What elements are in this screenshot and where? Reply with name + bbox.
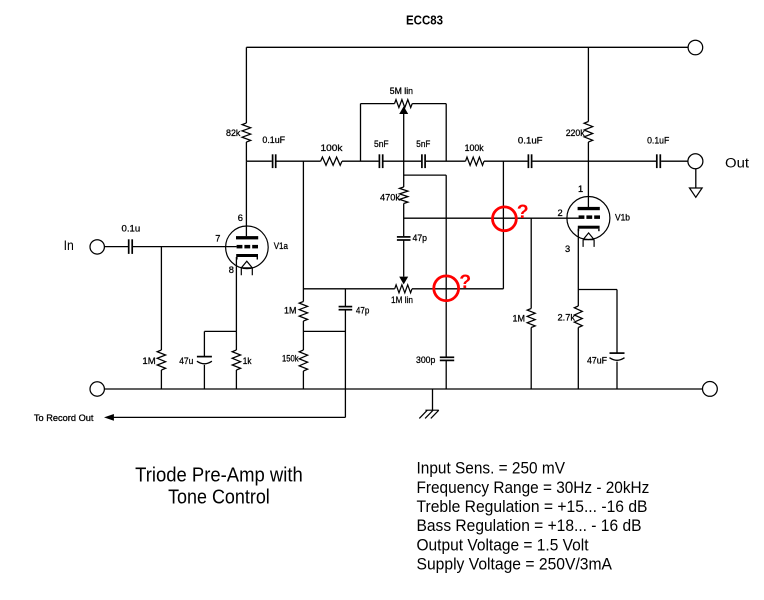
svg-text:Treble Regulation = +15... -16: Treble Regulation = +15... -16 dB [417,498,648,516]
triode V1b envelope [567,197,610,240]
terminal output ground [703,382,718,397]
svg-text:6: 6 [238,213,243,223]
wire V1a cathode lead [235,257,237,331]
wire cathode stub to 47u [204,330,236,332]
V1a anode plate [236,236,258,239]
resistor 100k (tone stack left) [321,157,342,165]
svg-text:300p: 300p [416,355,435,365]
svg-text:Output Voltage = 1.5 Volt: Output Voltage = 1.5 Volt [417,536,589,554]
svg-text:1M lin: 1M lin [391,295,413,305]
query circle junction B (red) [434,276,459,301]
V1b heater [583,233,594,247]
svg-text:150k: 150k [282,354,299,364]
wire 300p to ground rail [445,360,447,389]
wire 150k to rail [302,371,304,389]
svg-text:2: 2 [558,208,563,218]
svg-text:To Record Out: To Record Out [34,413,94,423]
wire corner up to coupling node [502,161,504,289]
wire 100k to C2 [484,160,528,162]
svg-text:100k: 100k [321,143,343,153]
wire treble pot right leg [445,104,447,162]
resistor 2.7k (V1b cathode) [574,306,582,328]
capacitor 0.1uF (output coupling) [656,154,658,168]
wire bass pot right to corner [412,288,503,290]
svg-text:Supply Voltage = 250V/3mA: Supply Voltage = 250V/3mA [417,556,613,574]
resistor 1M (input grid leak) [157,350,165,370]
svg-text:1M: 1M [284,306,296,316]
triode V1a envelope [226,226,269,269]
capacitor 47uF (cathode bypass) [610,352,625,354]
svg-text:5nF: 5nF [374,139,389,149]
svg-text:5nF: 5nF [416,139,430,149]
svg-text:2.7k: 2.7k [558,313,576,323]
svg-text:82k: 82k [226,128,241,138]
svg-text:100k: 100k [465,143,484,153]
resistor 100k (tone stack right) [466,157,485,165]
wire cathode stub to 47uF [578,289,617,291]
wire 1M to node [302,321,304,350]
wire treble pot left leg [360,104,362,162]
resistor 150k (divider lower) [299,350,307,371]
wire 100k to 5nF [342,160,379,162]
wire pot left top [361,103,395,105]
wire 47uF top leg [616,290,618,354]
wire 47uF to rail [616,362,618,389]
potentiometer 5M lin (treble) [395,100,413,108]
svg-text:47p: 47p [413,233,428,243]
query circle junction A (red) [493,207,517,231]
wire B+ top rail [246,46,688,48]
svg-text:V1a: V1a [274,241,289,251]
svg-text:ECC83: ECC83 [406,12,443,27]
svg-text:Out: Out [725,156,749,171]
capacitor 5nF (treble, right) [421,154,423,168]
svg-text:47uF: 47uF [587,356,607,366]
ground symbol [419,410,439,418]
wire 1k to rail [235,370,237,389]
wire V1b anode lead [587,161,589,207]
svg-text:0.1u: 0.1u [122,224,141,234]
resistor 1M (divider upper) [299,302,307,322]
svg-text:1M: 1M [142,356,155,366]
wire cathode to 1k [235,331,237,350]
svg-text:Triode Pre-Amp with: Triode Pre-Amp with [135,464,303,486]
capacitor 0.1uF (to V1b grid node) [527,154,529,168]
svg-text:1M: 1M [513,314,526,324]
terminal input ground [90,382,104,396]
resistor 470k [400,187,408,204]
wire 82k to plate node [245,142,247,161]
wire C3 to Out terminal [661,160,688,162]
wire from top rail down to R 220k [587,47,589,121]
wire Out terminal to ground [695,169,697,188]
wire V1b cathode lead [577,229,579,290]
svg-text:1k: 1k [243,356,252,366]
resistor 220k (V1b plate load) [584,122,593,143]
wiper arrow of 1M pot [399,277,408,285]
wire 1M to rail [530,328,532,390]
V1a cathode [236,254,258,257]
wire 1M to rail [160,370,162,389]
wire treble wiper down [403,114,405,187]
wire record out line [114,416,346,418]
svg-text:0.1uF: 0.1uF [647,136,669,146]
terminal In [90,240,104,254]
svg-text:0.1uF: 0.1uF [518,136,543,146]
wire wiper stub to right branch [404,174,447,176]
node V1b grid line [404,217,579,219]
capacitor 0.1u (input) [128,239,130,254]
wire grid node down to 1M [160,247,162,350]
wire 2.7k to rail [577,328,579,390]
wire 5nF to 100k right [426,160,466,162]
svg-text:?: ? [517,201,529,223]
svg-text:Frequency Range = 30Hz - 20kHz: Frequency Range = 30Hz - 20kHz [417,479,650,497]
capacitor 5nF (treble, left) [378,154,380,168]
svg-text:8: 8 [229,265,234,275]
svg-text:Tone Control: Tone Control [168,486,270,508]
capacitor 300p [440,356,454,358]
svg-text:470k: 470k [380,193,400,203]
wire 220k to V1b plate node [587,142,589,161]
wire C2 to V1b plate node [532,160,656,162]
potentiometer 1M lin (bass) [395,285,412,293]
resistor 82k (V1a plate load) [242,123,251,142]
V1b cathode [578,226,600,229]
svg-text:220k: 220k [566,128,585,138]
wire coupling node down to 1M [302,161,304,301]
svg-text:7: 7 [215,233,220,243]
wire bass pot left [303,288,394,290]
wire 470k to grid node [403,204,405,237]
svg-text:V1b: V1b [615,213,630,223]
svg-text:47p: 47p [356,306,369,316]
capacitor 47p (tone) [397,236,411,238]
wire 47u top [203,331,205,356]
svg-text:1: 1 [578,184,583,194]
capacitor 47u (cathode bypass) [197,356,212,358]
wire 47p to bass wiper arrow [403,240,405,277]
V1b grid (dashed) [579,215,585,219]
wire cathode to 2.7k [577,290,579,307]
wire V1a anode lead [245,161,247,236]
svg-text:0.1uF: 0.1uF [262,135,285,145]
svg-text:3: 3 [565,244,570,254]
ground (output return) open arrow [690,188,703,197]
wire In to C4 [105,246,129,248]
wire from top rail down to R 82k [245,47,247,123]
V1a grid (dashed) [237,245,243,249]
svg-text:47u: 47u [179,356,193,366]
arrowhead record out [104,414,114,421]
resistor 1k (V1a cathode) [232,350,240,370]
wire pot right top [412,103,446,105]
wire between 5nF caps [384,160,422,162]
wire 47u to rail [203,365,205,389]
wire right branch down to 300p [445,175,447,356]
capacitor 0.1uF (V1a plate coupling) [272,154,274,168]
wire C1 to 100k [277,160,321,162]
wire C4 to V1a grid [133,246,237,248]
wiper arrow of 5M pot [399,106,408,114]
resistor 1M (V1b grid leak) [530,218,532,308]
terminal Out [688,154,703,169]
svg-text:In: In [64,238,74,253]
svg-text:Input Sens. = 250 mV: Input Sens. = 250 mV [417,460,566,478]
svg-text:Bass Regulation = +18... - 16: Bass Regulation = +18... - 16 dB [417,517,642,535]
wire plate node to C1 [246,160,271,162]
terminal B+ supply top right [688,40,703,55]
V1a heater [241,261,252,275]
svg-text:5M lin: 5M lin [390,86,413,96]
V1b anode plate [578,207,600,210]
wire ground rail [104,388,702,390]
wire divider stub to 47p [303,330,345,332]
capacitor 47p (record tap) [339,306,353,308]
wire 47p top leg [344,289,346,307]
svg-text:?: ? [459,271,471,293]
wire 47p down to record line [344,310,346,418]
wire ground stub [432,389,434,410]
